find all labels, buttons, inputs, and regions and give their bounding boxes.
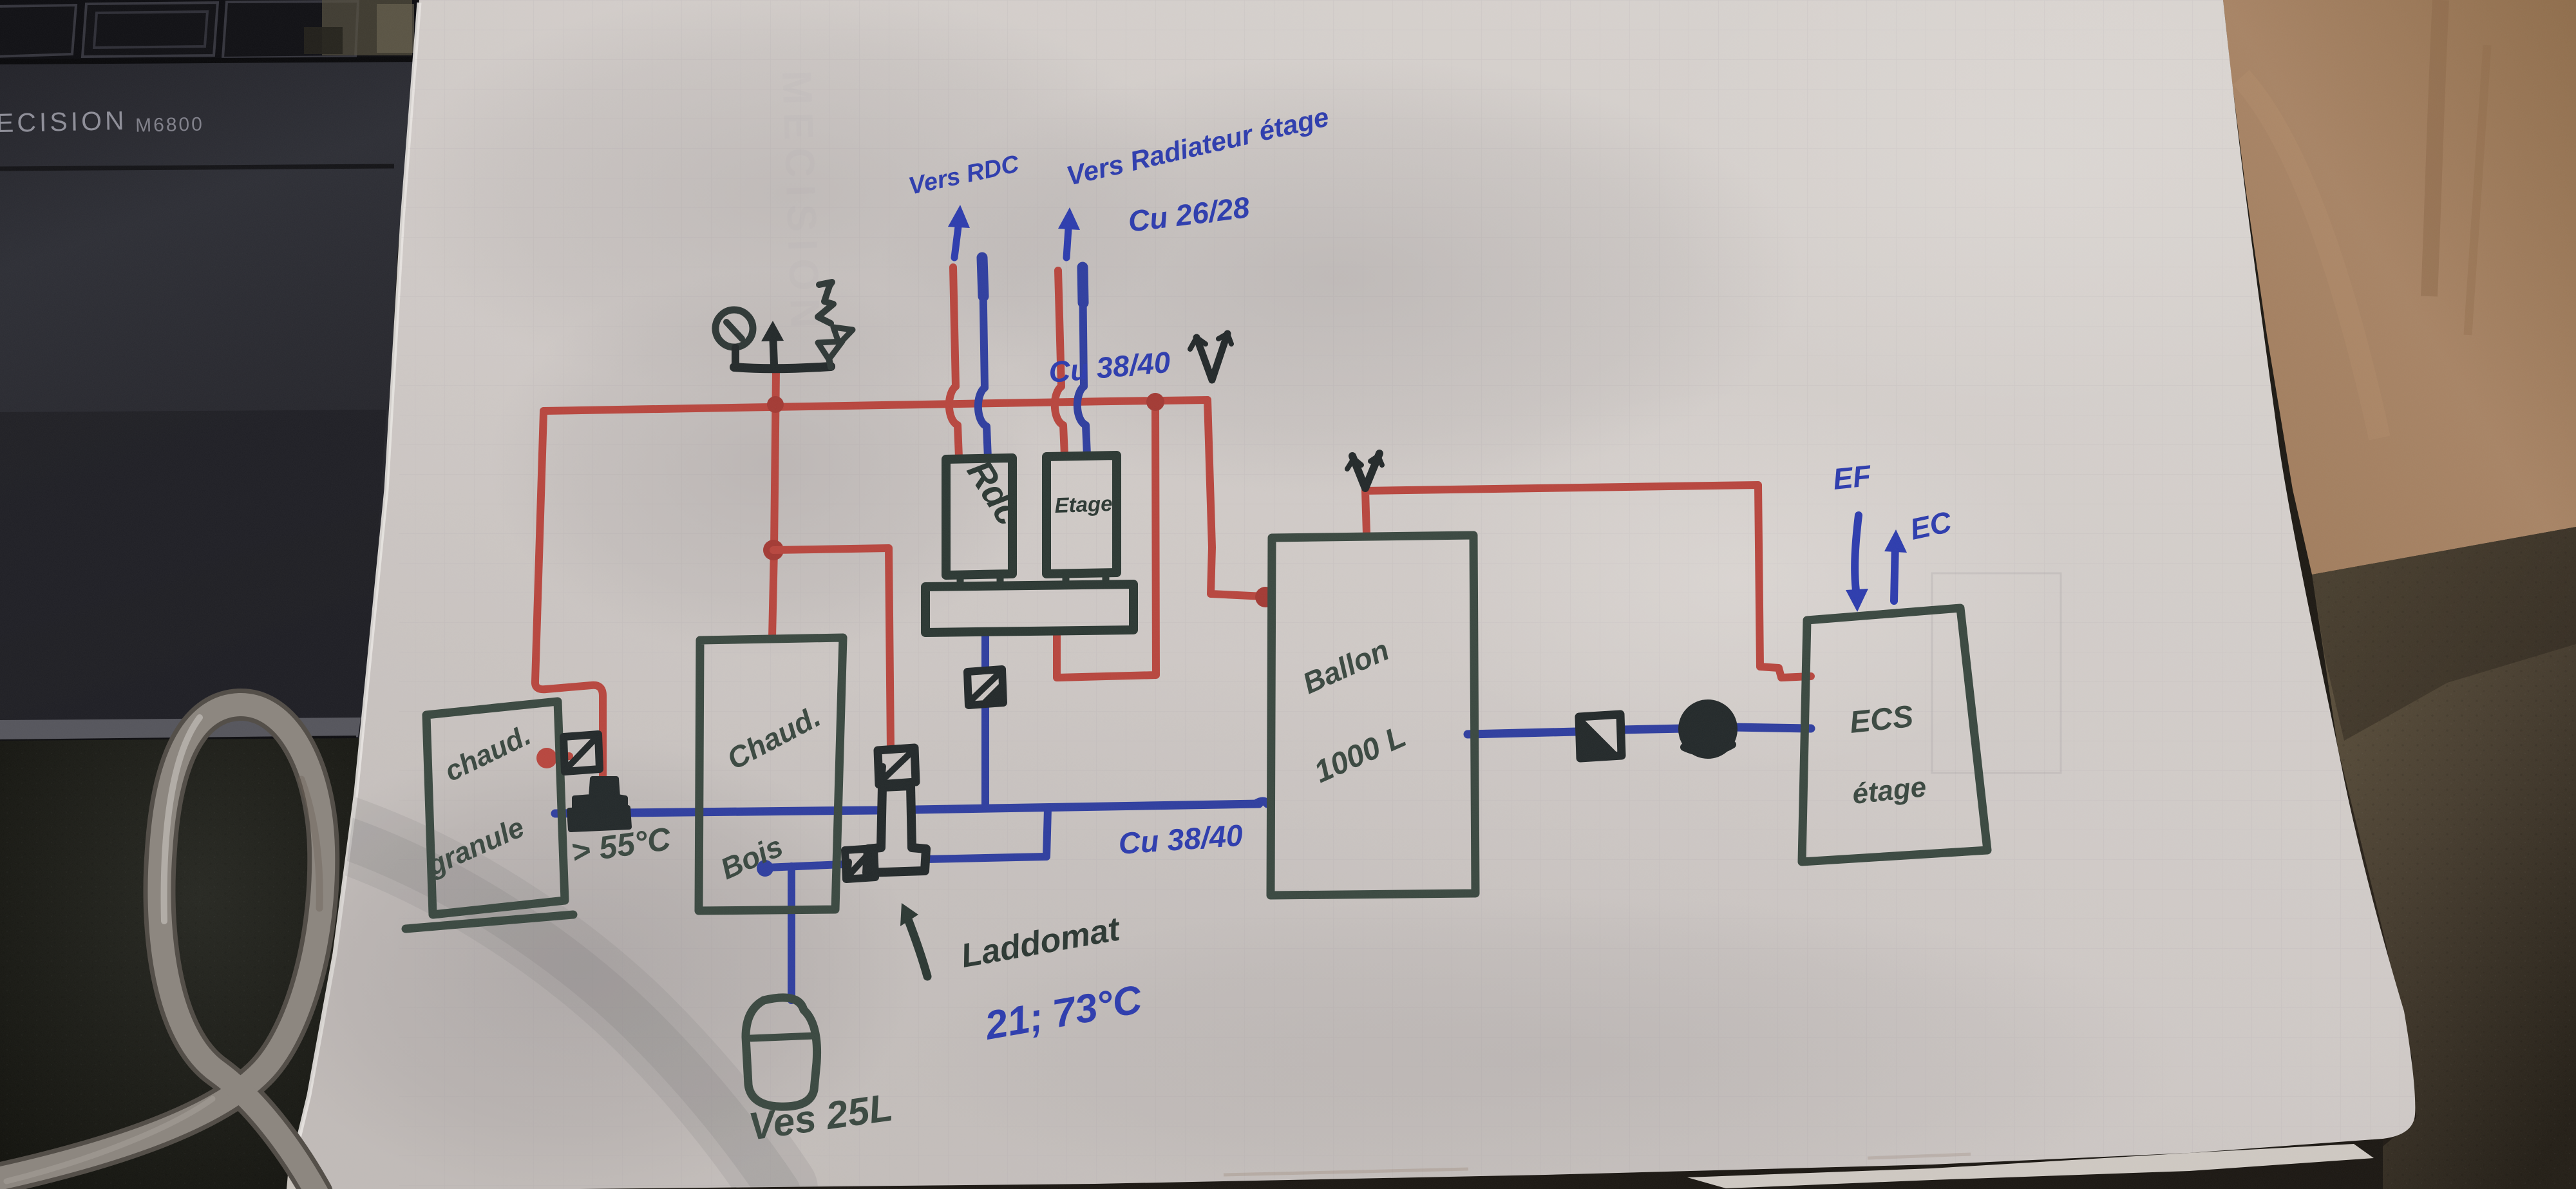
wire: blue Laddomat bottom run with jog up to main line (926, 809, 1048, 859)
arrow: EC blue up arrow out of ECS (1894, 542, 1895, 601)
arrow: blue up arrow Vers Radiateur etage (1066, 219, 1069, 258)
box: pump P (RDC circuit) (946, 458, 1012, 575)
box: Chaud Bois boiler (699, 638, 843, 911)
laptop lower darker zone (0, 410, 386, 744)
vent: air vent mark on header end (1197, 334, 1227, 380)
pump: granule boiler loading unit (black blob) (574, 779, 625, 810)
laptop deck seam (0, 166, 394, 169)
node: junction dot on header at safety tee (767, 396, 784, 413)
wire: red left riser from header down to granule boiler pump (535, 412, 603, 781)
couch tan top-right (2223, 0, 2576, 575)
valve: check valve at granule boiler outlet (563, 734, 600, 772)
box: Ballon 1000L buffer tank (1271, 535, 1475, 895)
laptop keyboard strip (0, 0, 422, 62)
valve: valve above Laddomat (878, 748, 916, 785)
box: collector manifold under pumps (925, 584, 1133, 633)
box: Chaud granule boiler (426, 701, 565, 915)
brown smudges along bottom edge (1224, 1169, 1468, 1175)
filter: strainer between Ballon and ECS pump (1579, 714, 1622, 758)
under-sheet sliver bottom-right (1687, 1144, 2374, 1188)
wire: red drop from safety group to Chaud Bois top (772, 370, 776, 638)
arrow: green arrow pointing to Laddomat (907, 916, 927, 976)
wire: blue Chaud Bois bottom to Laddomat left valve (766, 864, 842, 868)
arrow: EF blue down arrow into ECS (1855, 515, 1859, 596)
node: junction dot mid-drop (branch to Laddomat) (763, 540, 784, 560)
cable shadow band on paper (335, 831, 779, 1189)
box: ECS etage cylinder (1802, 608, 1987, 862)
wire: red stub granule boiler to check valve (553, 756, 569, 757)
wire: red riser Vers RDC (crosses header with hop) (949, 267, 959, 457)
valve: valve on Laddomat left arm (845, 848, 875, 879)
node: junction dot on header at x=1794 (1146, 393, 1164, 411)
base line under granule boiler (406, 915, 573, 929)
device: Laddomat 21 thermic unit (T shape) (867, 786, 926, 873)
vent: air vent on Ballon top (1352, 453, 1379, 488)
wire: blue riser RDC return (hop at header) (978, 269, 988, 459)
under-sheet sliver bottom-left (287, 1153, 370, 1189)
wire: blue riser etage return (hop at header) (1077, 271, 1087, 455)
gauge: pressure gauge of safety group (715, 310, 753, 347)
faint pencil rectangle right of ECS (1932, 573, 2061, 773)
wire: blue Ballon to ECS line through filter and pump (1468, 727, 1811, 734)
pump: ECS loading pump (filled circle) (1681, 703, 1734, 756)
wire: red branch from node to Laddomat top valve (773, 548, 891, 749)
arrow: blue up arrow Vers RDC (954, 216, 960, 258)
wire: red riser Vers Radiateur etage (hop at header) (1055, 271, 1065, 455)
valve: safety relief valve with spring (818, 282, 833, 323)
vessel: expansion vessel Ves 25L (746, 998, 817, 1107)
laptop body top-left (0, 0, 419, 744)
faint squared-paper grid (399, 0, 2421, 1189)
wire: blue main return line Cu 38/40 boilers to Ballon (555, 804, 1259, 813)
dark strip under paper bottom edge (293, 1139, 2383, 1189)
laptop front edge highlight (0, 718, 361, 742)
couch dark right (2312, 527, 2576, 1189)
wire: red loop header-to-collector (Etage return) (1057, 402, 1156, 678)
arrow: safety group vent arrow up (773, 332, 774, 365)
node: red blob on granule boiler outlet (536, 748, 557, 768)
wire: red from Ballon top to ECS (hot water supply) (1365, 485, 1811, 678)
wire: blue drop to expansion vessel (788, 866, 795, 1000)
pin: collector stubs to pumps (960, 573, 1106, 587)
valve: isolation valve on collector return drop (967, 669, 1003, 705)
cable loop outline (0, 705, 323, 1189)
gray cable bottom-left (0, 705, 323, 1189)
floor bottom-left (0, 738, 361, 1189)
wire: blue collector drop through valve to main line (981, 631, 989, 807)
wire: red header end down to Ballon top-left inlet (1207, 400, 1264, 596)
node: blue bump at Ballon return inlet (1256, 801, 1267, 804)
node: blue dot at Chaud Bois bottom outlet (757, 860, 773, 877)
box: pump Etage (1046, 455, 1117, 574)
soft shadows on paper (393, 0, 1191, 399)
node: junction dot at Ballon inlet (1255, 587, 1276, 607)
wire: safety group manifold bar (734, 366, 831, 368)
wire: red supply header (544, 400, 1207, 411)
